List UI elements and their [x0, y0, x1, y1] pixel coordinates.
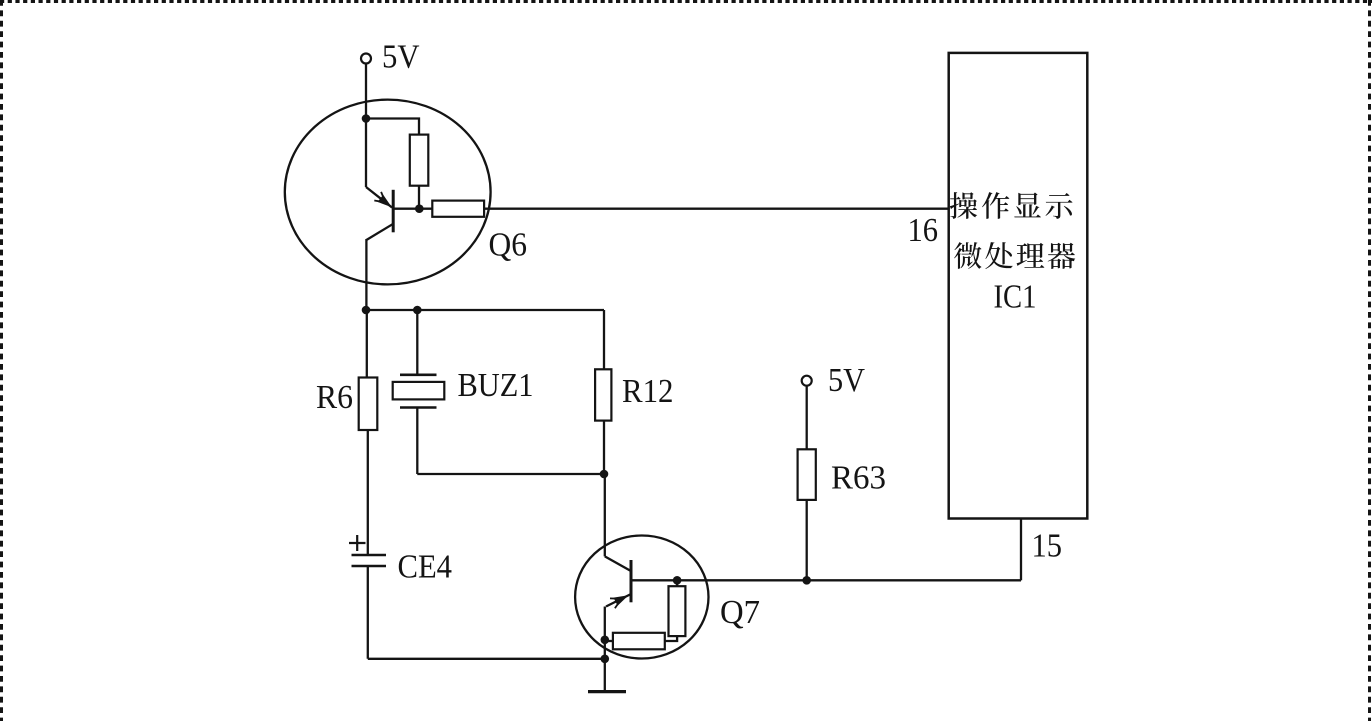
svg-text:Q7: Q7 — [720, 594, 760, 631]
transistor Q6 envelope — [285, 100, 491, 285]
wire R6 to CE4 — [367, 430, 369, 554]
IC1 text glyph 显 — [1014, 193, 1041, 218]
node R63 / pin15 wire — [802, 576, 811, 585]
Q6 emitter diagonal — [366, 187, 392, 208]
capacitor CE4 bottom plate — [352, 565, 387, 567]
transistor Q7 envelope — [575, 536, 708, 659]
resistor R63 — [798, 449, 816, 500]
wire Q6 base resistor to IC1 pin 16 — [484, 208, 949, 210]
node Q6 base — [415, 204, 424, 213]
wire Q7 collector vertical — [604, 474, 606, 556]
svg-text:R63: R63 — [831, 460, 886, 497]
svg-text:16: 16 — [908, 212, 939, 249]
svg-text:CE4: CE4 — [398, 549, 453, 586]
node Q7 emitter/resistor junction — [601, 636, 610, 645]
wire Q6 collector down — [365, 239, 367, 310]
wire Q7 horizontal resistor to emitter — [605, 640, 613, 642]
resistor Q6 internal series (horizontal) — [432, 201, 484, 217]
wire to ground — [604, 659, 606, 692]
node R12/BUZ1/Q7 collector — [600, 470, 609, 479]
wire Q6 emitter vertical — [365, 119, 367, 188]
BUZ1 bottom plate — [400, 406, 437, 409]
node Q6 emitter/bias junction — [362, 114, 371, 123]
Q6 emitter arrow (PNP, pointing at base) — [378, 195, 392, 208]
wire Q6 bias resistor feed — [366, 119, 419, 135]
wire to R6 — [366, 310, 368, 378]
wire R12 down — [603, 421, 605, 474]
5V supply terminal (Q6 emitter) — [361, 54, 371, 64]
IC1 text glyph 操 — [950, 192, 977, 219]
svg-text:Q6: Q6 — [489, 227, 528, 264]
resistor R12 — [595, 369, 611, 420]
buzzer BUZ1 element — [393, 382, 445, 400]
IC1 text glyph 示 — [1046, 193, 1073, 219]
resistor Q7 internal (vertical) — [669, 586, 686, 636]
Q6 collector diagonal — [366, 224, 393, 240]
IC1 text glyph 作 — [982, 192, 1009, 219]
wire Q7 internal resistor link — [665, 636, 677, 641]
wire R63 down — [806, 500, 808, 580]
wire to R12 — [603, 310, 605, 369]
Q6 base bar — [392, 190, 395, 233]
wire bias resistor to base node — [418, 186, 420, 209]
wire bottom rail to Q7 emitter — [368, 658, 605, 660]
svg-text:R6: R6 — [316, 379, 353, 416]
IC U1 box: 操作显示微处理器 IC1 — [949, 53, 1088, 519]
IC1 text glyph 处 — [985, 242, 1012, 269]
wire 5V to R63 — [806, 386, 808, 450]
Q7 emitter diagonal — [606, 594, 631, 607]
wire junction row y=310 — [366, 309, 604, 311]
wire IC1 pin 15 — [1020, 519, 1022, 581]
ground — [588, 690, 626, 693]
node Q7 base / internal resistor — [673, 576, 682, 585]
Q7 base bar — [630, 560, 633, 602]
wire Q6 base to series resistor — [393, 208, 432, 210]
IC1 text glyph 器 — [1048, 243, 1076, 269]
capacitor CE4 top plate — [352, 554, 387, 556]
node Q7 emitter / bottom rail — [601, 655, 610, 664]
5V supply terminal (R63) — [802, 376, 812, 386]
svg-text:IC1: IC1 — [994, 279, 1037, 316]
wire to BUZ1 — [416, 310, 418, 374]
Q7 collector diagonal — [605, 556, 630, 570]
IC1 text glyph 理 — [1017, 243, 1045, 268]
dashed page border right — [1368, 0, 1371, 721]
resistor Q6 internal bias (vertical) — [410, 135, 429, 186]
BUZ1 top plate — [400, 373, 437, 376]
dashed page border left — [0, 0, 3, 721]
wire 5V to Q6 emitter node — [365, 64, 367, 119]
wire Q7 base to R63 and IC1 pin 15 — [631, 579, 1021, 581]
svg-text:5V: 5V — [828, 362, 865, 399]
resistor R6 — [359, 378, 378, 431]
capacitor CE4 plus sign — [349, 542, 366, 544]
wire Q7 emitter down — [604, 607, 606, 659]
Q7 emitter arrow (PNP, pointing at base) — [614, 595, 629, 606]
wire to Q7 internal resistor — [676, 580, 678, 586]
node collector / R6 junction — [362, 306, 371, 315]
resistor Q7 internal (horizontal) — [613, 633, 665, 650]
IC1 text glyph 微 — [954, 242, 981, 269]
dashed page border top — [0, 0, 1372, 3]
wire BUZ1 down — [416, 408, 418, 475]
wire BUZ1 to R12/Q7 node — [417, 473, 604, 475]
node BUZ1 top junction — [413, 306, 422, 315]
wire CE4 to bottom rail — [367, 566, 369, 659]
svg-text:15: 15 — [1032, 528, 1063, 565]
svg-text:5V: 5V — [382, 39, 420, 76]
svg-text:R12: R12 — [622, 373, 674, 410]
svg-text:BUZ1: BUZ1 — [458, 367, 534, 404]
